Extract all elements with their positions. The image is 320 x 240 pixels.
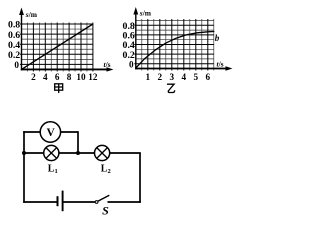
right graph caption yi [167,84,175,92]
svg-text:10: 10 [76,72,86,82]
wire voltmeter drop right [77,131,79,153]
svg-text:0: 0 [14,60,19,70]
voltmeter U1 (V) [40,122,60,142]
svg-text:b: b [215,33,220,43]
switch S lever [98,195,110,201]
left graph x tick labels 2-12 [31,72,98,82]
left graph data line (uniform motion) [22,24,93,69]
svg-text:4: 4 [182,72,187,82]
node junction left [22,151,26,155]
svg-text:2: 2 [158,72,163,82]
svg-text:0: 0 [129,59,134,69]
wire bottom left segment [23,201,56,203]
right graph y-axis [135,12,137,70]
wire voltmeter branch left [23,131,40,133]
svg-text:1: 1 [146,72,151,82]
svg-text:5: 5 [194,72,199,82]
left graph grid (minor lines) [22,23,93,72]
wire main branch [24,152,141,154]
svg-text:6: 6 [55,72,60,82]
battery cell positive plate [62,191,64,212]
left graph grid (major lines) [20,23,93,72]
svg-text:4: 4 [43,72,48,82]
svg-text:t/s: t/s [217,60,224,69]
right graph data curve (decelerating motion) [136,32,214,69]
left graph y-axis [21,13,23,71]
svg-text:3: 3 [170,72,175,82]
left graph y-axis arrowhead [19,8,24,16]
right graph y-axis arrowhead [133,7,138,15]
svg-text:s/m: s/m [25,10,38,19]
wire bottom middle segment [64,201,96,203]
wire voltmeter branch right [61,131,78,133]
right graph grid (major lines) [134,19,214,71]
svg-text:s/m: s/m [139,9,152,18]
left graph x-axis [21,68,107,70]
svg-text:8: 8 [67,72,72,82]
svg-text:S: S [102,203,109,217]
lamp L2 [95,145,110,160]
svg-text:V: V [46,127,55,139]
right graph x-axis [135,68,226,70]
left graph caption jia [55,84,63,93]
right graph grid (minor lines) [136,19,214,71]
left graph x-axis arrowhead [107,67,114,71]
right graph x tick labels 1-6 [146,72,211,82]
svg-text:6: 6 [206,72,211,82]
svg-text:t/s: t/s [104,60,111,69]
lamp L1 [44,145,59,160]
wire bottom right segment [108,201,141,203]
left graph y tick labels 0.8 0.6 0.4 0.2 [8,20,20,61]
right graph x-axis arrowhead [226,66,233,70]
svg-text:2: 2 [31,72,36,82]
svg-text:12: 12 [88,72,98,82]
battery cell negative plate [57,196,59,206]
switch S pivot [95,201,98,204]
right graph y tick labels 0.8 0.6 0.4 0.2 [123,21,135,61]
wire right vertical [139,153,141,203]
wire left vertical [23,131,25,203]
node junction right [76,151,80,155]
